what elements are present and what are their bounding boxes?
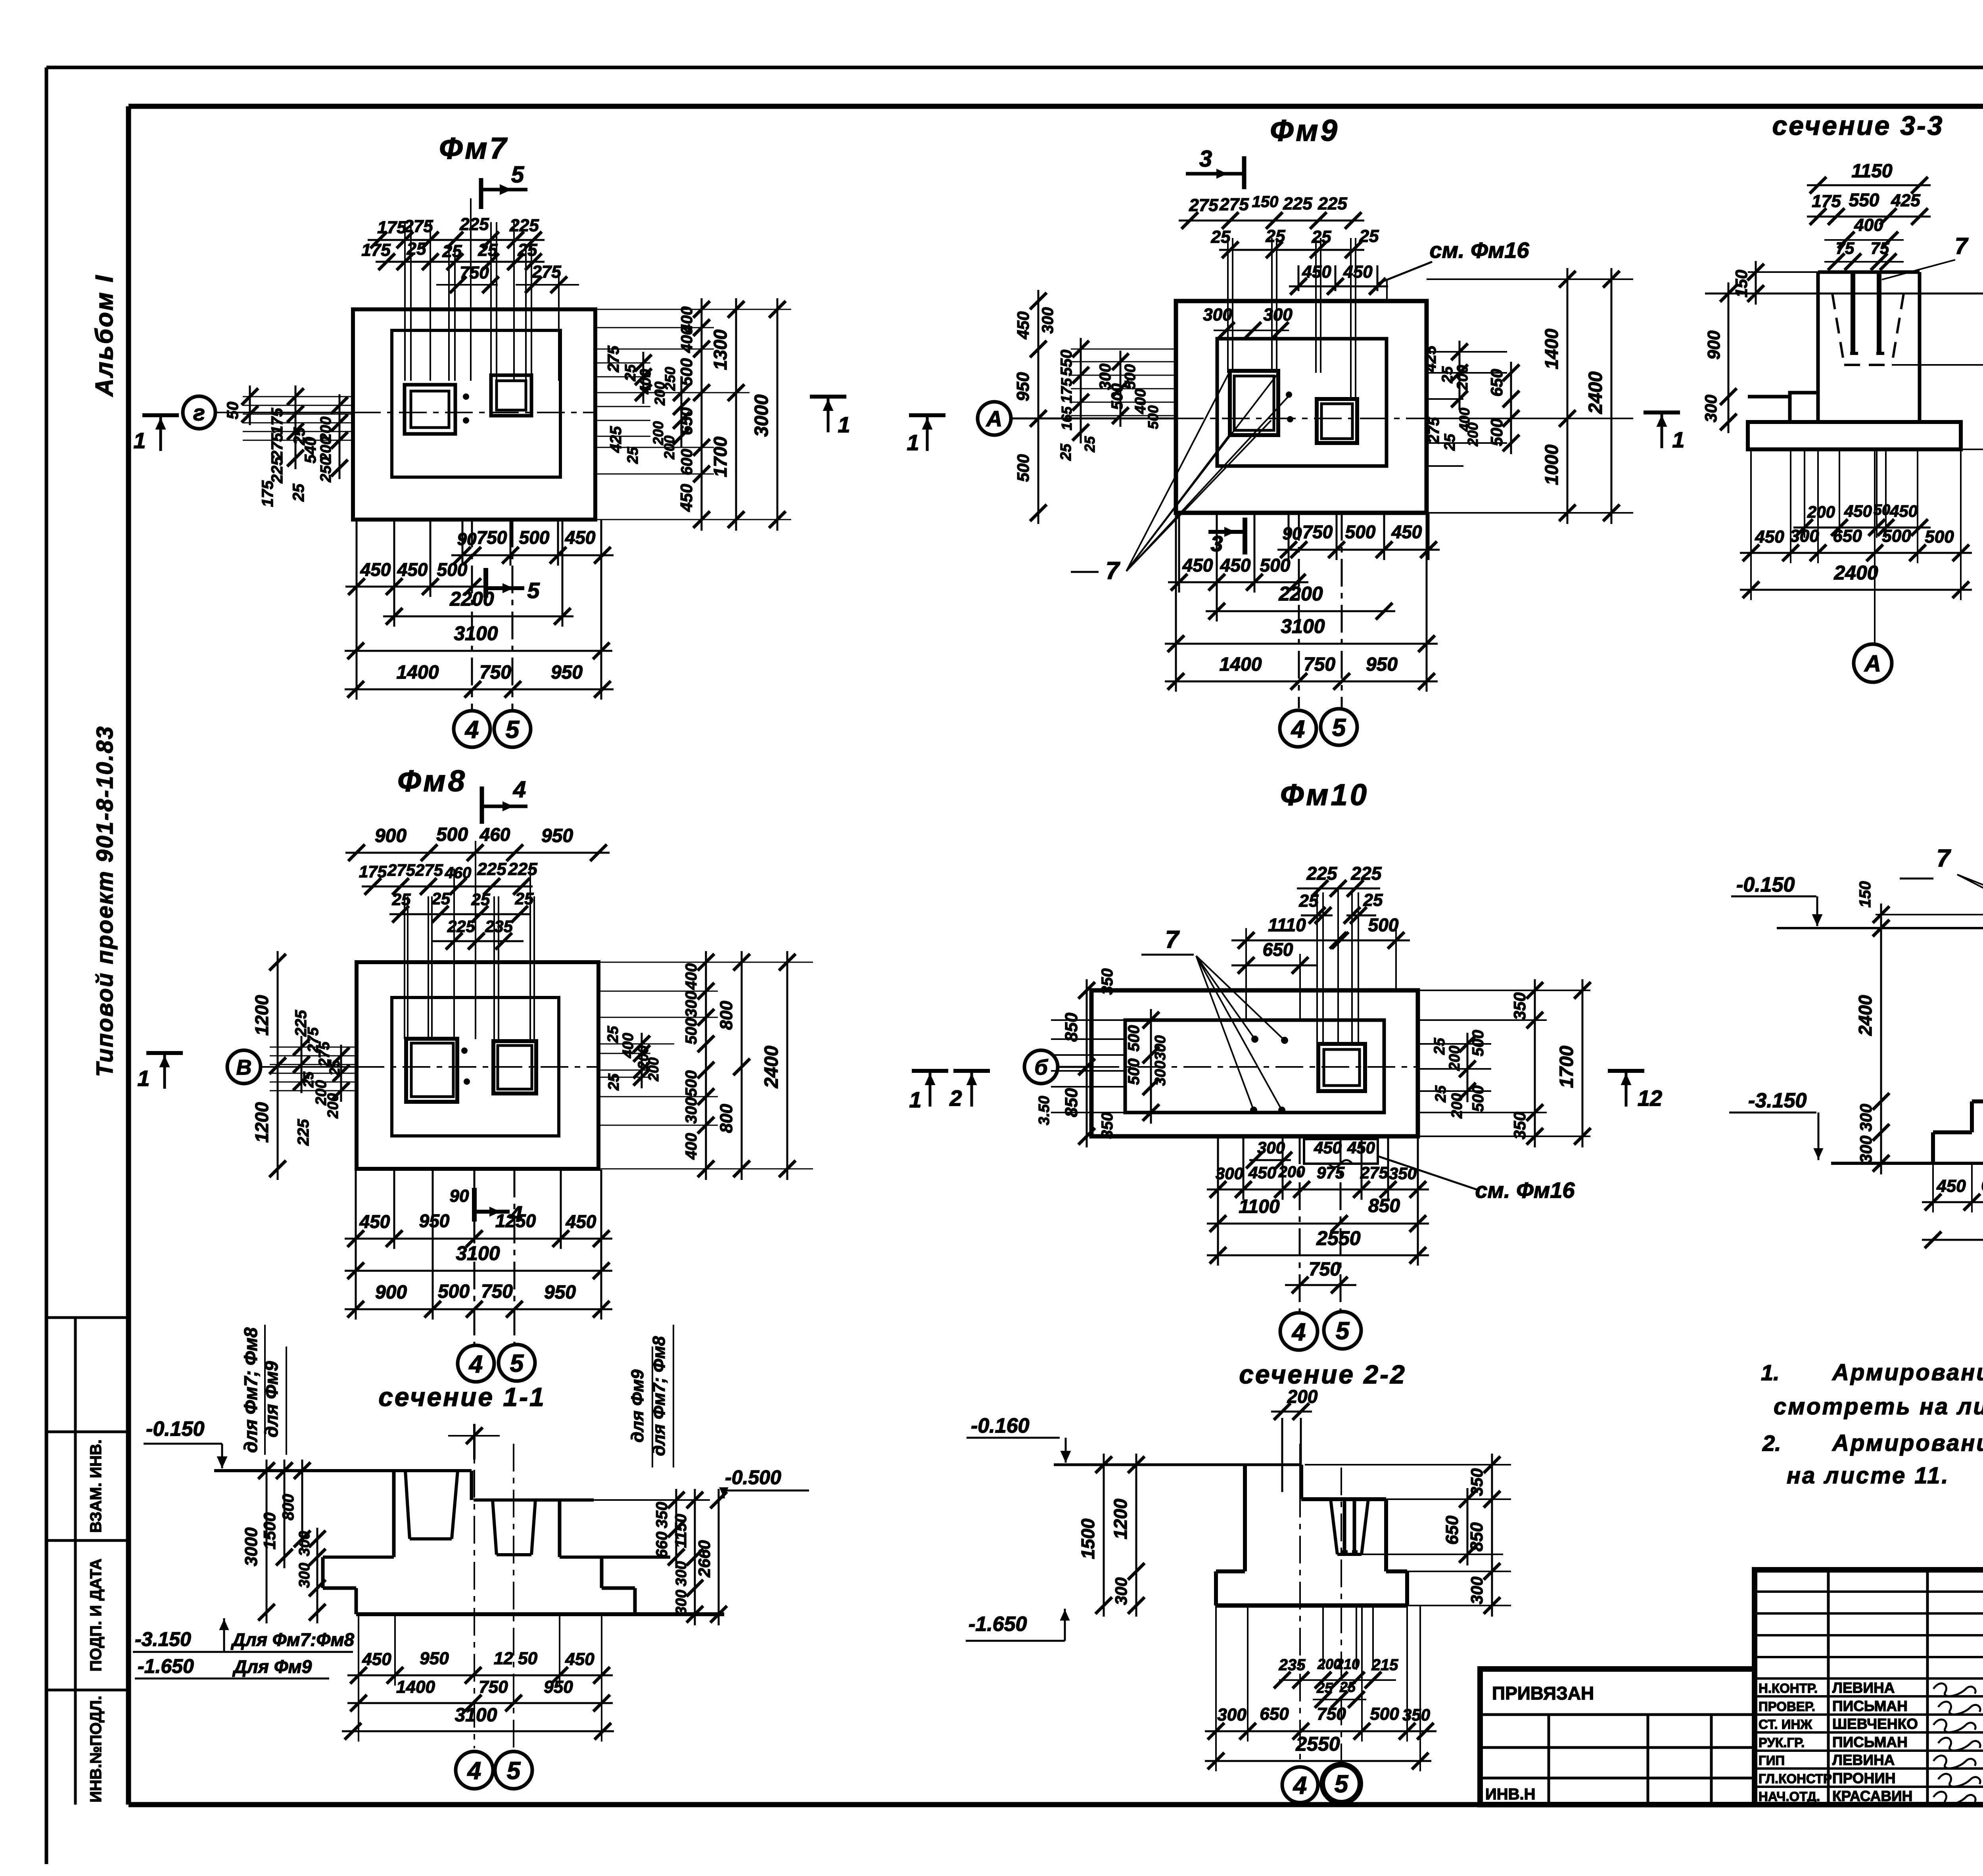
svg-text:300: 300 xyxy=(1039,307,1057,334)
svg-text:ПРОНИН: ПРОНИН xyxy=(1832,1770,1896,1786)
svg-text:250: 250 xyxy=(318,457,334,482)
Fm10 right extension lines xyxy=(1418,990,1590,991)
svg-text:425: 425 xyxy=(607,426,625,453)
section 2-2 rebars xyxy=(1343,1499,1346,1552)
svg-text:225: 225 xyxy=(447,917,476,936)
svg-text:25: 25 xyxy=(622,364,639,382)
Fm9 right extension lines xyxy=(1427,278,1633,280)
svg-text:25: 25 xyxy=(471,890,490,909)
svg-text:950: 950 xyxy=(420,1649,449,1668)
svg-text:б: б xyxy=(1034,1055,1048,1079)
svg-text:350: 350 xyxy=(1099,969,1116,995)
Fm9 left T-marker 1 xyxy=(909,413,945,417)
svg-text:660: 660 xyxy=(653,1532,671,1558)
svg-text:750: 750 xyxy=(1309,1259,1341,1280)
Fm7 cut mark 5 bottom xyxy=(483,568,488,598)
Fm10 left dims xyxy=(1086,979,1088,1147)
svg-text:1150: 1150 xyxy=(672,1514,690,1548)
Fm9 left small dims xyxy=(1071,349,1176,350)
section 1-1 axis dashdot lines xyxy=(474,1424,475,1748)
svg-text:Н.КОНТР.: Н.КОНТР. xyxy=(1759,1681,1818,1696)
svg-text:350: 350 xyxy=(1510,992,1529,1020)
svg-text:800: 800 xyxy=(717,1104,736,1133)
svg-text:425: 425 xyxy=(1422,345,1439,372)
svg-text:500: 500 xyxy=(1014,454,1032,482)
Fm9 right dims 1400-1000 xyxy=(1567,268,1569,524)
Fm9 bottom dims 2200 xyxy=(1206,610,1395,612)
section 3-3 dims 75-75 xyxy=(1824,261,1904,263)
Fm8 center dash-dot lines xyxy=(357,1066,598,1068)
svg-text:7: 7 xyxy=(1937,845,1951,872)
svg-text:1: 1 xyxy=(137,1066,150,1091)
Fm8 axis dots xyxy=(461,1047,468,1054)
section 3-3 level mark -1.650 xyxy=(1961,449,1983,450)
svg-text:25: 25 xyxy=(290,483,307,502)
svg-text:175: 175 xyxy=(1059,378,1075,403)
section 1-1 right level line -0.500 xyxy=(474,1498,594,1502)
svg-text:300: 300 xyxy=(1856,1136,1875,1163)
svg-text:1500: 1500 xyxy=(260,1512,279,1549)
svg-text:750: 750 xyxy=(1302,522,1333,542)
Fm7 axis dots xyxy=(463,393,469,400)
Fm8 left dims xyxy=(270,1047,357,1048)
Fm10 axis b circle xyxy=(1024,1050,1058,1084)
svg-text:150: 150 xyxy=(1856,881,1874,908)
svg-text:275: 275 xyxy=(415,861,443,879)
svg-text:300: 300 xyxy=(683,1097,700,1124)
svg-text:450: 450 xyxy=(1302,262,1331,282)
svg-text:175: 175 xyxy=(359,862,387,881)
svg-text:5: 5 xyxy=(1332,714,1346,741)
svg-text:3.50: 3.50 xyxy=(1036,1096,1053,1125)
svg-text:25: 25 xyxy=(407,239,426,259)
svg-text:50: 50 xyxy=(224,402,242,420)
svg-text:225: 225 xyxy=(1351,863,1382,884)
svg-text:900: 900 xyxy=(1704,330,1724,360)
svg-text:ШЕВЧЕНКО: ШЕВЧЕНКО xyxy=(1832,1716,1918,1732)
Fm8 right chain 800-800 xyxy=(741,951,743,1180)
svg-text:СТ. ИНЖ: СТ. ИНЖ xyxy=(1759,1717,1812,1732)
section 1-1 grid circle 4 xyxy=(456,1751,493,1789)
Fm7 top dim row 3 xyxy=(436,284,498,286)
svg-text:500: 500 xyxy=(436,824,468,845)
svg-text:300: 300 xyxy=(1856,1104,1875,1132)
svg-text:5: 5 xyxy=(506,716,520,743)
section 3-3 right dim 800 xyxy=(1892,364,1983,366)
section 1-1 left pedestal xyxy=(392,1471,396,1557)
svg-text:350: 350 xyxy=(653,1502,671,1529)
svg-text:25: 25 xyxy=(432,889,451,908)
svg-text:2550: 2550 xyxy=(1316,1227,1360,1249)
svg-text:950: 950 xyxy=(419,1210,450,1231)
svg-text:2.: 2. xyxy=(1762,1431,1781,1456)
svg-text:300: 300 xyxy=(1701,395,1720,422)
Fm7 center dash-dot lines xyxy=(353,412,595,413)
svg-text:200: 200 xyxy=(1287,1386,1318,1407)
section 1-1 left steps xyxy=(321,1557,325,1588)
section 1-1 mid ground lines xyxy=(323,1556,394,1559)
section 2-2 below dims 2550 xyxy=(1205,1760,1431,1762)
svg-text:1400: 1400 xyxy=(396,1677,435,1697)
Fm7 left small dims xyxy=(243,396,353,397)
Fm9 axis dots xyxy=(1286,391,1292,398)
svg-text:450: 450 xyxy=(362,1650,391,1669)
svg-text:300: 300 xyxy=(683,991,700,1018)
section 3-3 dim 1150 xyxy=(1807,184,1931,186)
svg-text:175: 175 xyxy=(268,408,286,434)
section 1-1 top level line xyxy=(214,1469,472,1472)
svg-text:850: 850 xyxy=(1368,1195,1400,1216)
svg-text:см. Фм16: см. Фм16 xyxy=(1475,1178,1575,1203)
Fm7 left pocket xyxy=(405,385,455,434)
svg-text:175: 175 xyxy=(259,480,276,507)
svg-text:ГИП: ГИП xyxy=(1759,1753,1785,1768)
Fm8 top dim row 2 xyxy=(389,913,531,915)
svg-text:ГЛ.КОНСТР: ГЛ.КОНСТР xyxy=(1759,1771,1832,1786)
Fm7 grid circle 5 xyxy=(494,711,531,747)
svg-text:25: 25 xyxy=(1312,227,1331,247)
Fm7 bottom dims row2 xyxy=(345,586,484,588)
Fm8 bottom dims row3 xyxy=(345,1308,612,1310)
section 2-2 dim 200 xyxy=(1271,1411,1312,1413)
svg-text:165: 165 xyxy=(1059,406,1075,430)
svg-text:4: 4 xyxy=(468,1350,483,1378)
section 2-2 right dims xyxy=(1467,1488,1469,1565)
svg-text:250: 250 xyxy=(662,367,678,391)
section 3-3 level line xyxy=(1705,293,1983,295)
section 3-3 below dims rowB xyxy=(1740,552,1972,554)
svg-text:300: 300 xyxy=(1467,1577,1486,1604)
svg-text:2660: 2660 xyxy=(695,1540,713,1577)
svg-text:450: 450 xyxy=(565,527,596,548)
svg-text:ПИСЬМАН: ПИСЬМАН xyxy=(1832,1698,1908,1714)
svg-text:225: 225 xyxy=(1283,194,1312,213)
svg-text:3100: 3100 xyxy=(1281,615,1325,637)
svg-text:500: 500 xyxy=(438,1281,470,1302)
Fm10 bottom dims row1 xyxy=(1207,1189,1429,1191)
svg-text:ПИСЬМАН: ПИСЬМАН xyxy=(1832,1734,1908,1750)
svg-text:750: 750 xyxy=(477,527,507,548)
svg-text:ИНВ.№ПОДЛ.: ИНВ.№ПОДЛ. xyxy=(87,1696,105,1802)
svg-text:25: 25 xyxy=(1058,443,1074,461)
Fm9 left pocket xyxy=(1230,371,1278,435)
svg-text:500: 500 xyxy=(1370,1704,1399,1724)
Fm10 top dim 1110 xyxy=(1231,940,1352,942)
svg-text:25: 25 xyxy=(1363,890,1383,910)
svg-text:225: 225 xyxy=(1318,194,1347,213)
svg-text:500: 500 xyxy=(1122,364,1139,389)
section 3-3 glass dashed xyxy=(1832,293,1844,365)
Fm7 bottom dims 3100 xyxy=(345,650,612,652)
Fm7 bottom dims row5 xyxy=(345,689,614,691)
svg-text:1: 1 xyxy=(909,1087,921,1112)
svg-text:300: 300 xyxy=(673,1590,690,1615)
svg-text:90: 90 xyxy=(450,1186,469,1206)
Fm9 axis A circle xyxy=(978,402,1011,435)
Fm10 grid circle 5 xyxy=(1324,1312,1361,1349)
svg-text:ПРИВЯЗАН: ПРИВЯЗАН xyxy=(1492,1683,1594,1703)
svg-text:г: г xyxy=(193,400,205,425)
svg-text:Типовой проект 901-8-10.83: Типовой проект 901-8-10.83 xyxy=(92,725,118,1077)
svg-text:975: 975 xyxy=(1317,1163,1345,1182)
svg-text:7: 7 xyxy=(1165,926,1180,953)
Fm10 left extension lines xyxy=(1051,1019,1125,1021)
svg-text:275: 275 xyxy=(531,262,561,282)
svg-text:400: 400 xyxy=(683,963,700,990)
svg-text:450: 450 xyxy=(1314,1138,1342,1157)
section 3-3 left step xyxy=(1748,395,1790,399)
svg-text:ПРОВЕР.: ПРОВЕР. xyxy=(1759,1699,1815,1714)
section 5-5 below extension lines xyxy=(1932,1163,1934,1212)
svg-text:300: 300 xyxy=(296,1563,313,1588)
svg-text:450: 450 xyxy=(359,1211,390,1232)
section 2-2 grid circle 4 xyxy=(1282,1767,1318,1803)
svg-text:500: 500 xyxy=(1260,555,1291,575)
svg-text:5: 5 xyxy=(510,1350,524,1377)
svg-text:90: 90 xyxy=(1283,524,1302,543)
svg-text:25: 25 xyxy=(1211,227,1231,247)
svg-text:1: 1 xyxy=(133,428,146,453)
svg-text:1: 1 xyxy=(907,430,919,455)
svg-text:сечение 1-1: сечение 1-1 xyxy=(378,1382,546,1412)
svg-text:Для Фм9: Для Фм9 xyxy=(232,1656,312,1677)
Fm8 top dim row 0 xyxy=(345,852,610,854)
section 2-2 glass xyxy=(1331,1499,1337,1554)
Fm9 vertical bars through pockets xyxy=(1227,238,1229,373)
Fm9 right T-marker 1 xyxy=(1644,410,1680,414)
Fm8 bottom dims row1 xyxy=(345,1238,612,1240)
section 5-5 bottom line xyxy=(1831,1162,1983,1165)
section 1-1 below dims row2 xyxy=(347,1702,613,1704)
svg-text:ЛЕВИНА: ЛЕВИНА xyxy=(1832,1752,1895,1768)
svg-text:200: 200 xyxy=(661,435,677,460)
Fm10 top extension lines xyxy=(1245,928,1247,1020)
svg-text:Армирование фундамента Фм10: Армирование фундамента Фм10 смотреть xyxy=(1831,1430,1983,1456)
Fm9 top dim row 1 xyxy=(1179,220,1364,222)
Fm8 left pocket xyxy=(406,1039,457,1102)
Fm8 right pocket xyxy=(493,1041,536,1093)
Fm9 bottom dims row1 xyxy=(1277,549,1440,551)
svg-text:900: 900 xyxy=(375,1282,407,1303)
svg-text:25: 25 xyxy=(625,447,641,464)
svg-text:1500: 1500 xyxy=(1078,1518,1098,1559)
section 1-1 below extension lines xyxy=(358,1614,359,1742)
svg-text:300: 300 xyxy=(673,1561,690,1586)
section 3-3 left dims xyxy=(1728,282,1730,433)
svg-text:-1.650: -1.650 xyxy=(138,1655,194,1677)
svg-text:4: 4 xyxy=(1291,1318,1306,1346)
svg-text:800: 800 xyxy=(717,1001,736,1030)
svg-text:275: 275 xyxy=(1189,196,1218,215)
svg-text:50: 50 xyxy=(1874,502,1890,518)
svg-text:25: 25 xyxy=(1431,1038,1448,1055)
svg-text:450: 450 xyxy=(1936,1176,1966,1196)
Fm7 left T-marker 1 xyxy=(142,413,179,417)
Fm10 plan outer rect xyxy=(1091,990,1418,1136)
svg-text:750: 750 xyxy=(1304,654,1335,675)
svg-text:сечение 3-3: сечение 3-3 xyxy=(1772,111,1944,141)
Fm7 top extension lines xyxy=(404,222,406,381)
svg-text:7: 7 xyxy=(1106,557,1120,585)
svg-text:3000: 3000 xyxy=(751,394,772,437)
svg-text:650: 650 xyxy=(1487,369,1506,397)
svg-text:3100: 3100 xyxy=(455,1705,497,1726)
svg-text:2400: 2400 xyxy=(1585,371,1606,414)
svg-text:500: 500 xyxy=(1345,522,1376,542)
Fm9 grid circle 4 xyxy=(1280,710,1316,747)
svg-text:2400: 2400 xyxy=(761,1045,782,1088)
Fm10 grid circle 4 xyxy=(1280,1313,1318,1350)
svg-text:500: 500 xyxy=(1125,1059,1143,1085)
svg-text:950: 950 xyxy=(1013,372,1033,401)
svg-text:275: 275 xyxy=(1360,1163,1388,1182)
svg-text:750: 750 xyxy=(1317,1704,1346,1724)
svg-text:1: 1 xyxy=(1672,427,1684,452)
Fm7 bottom extension lines xyxy=(356,520,358,700)
svg-text:450: 450 xyxy=(1014,311,1032,340)
svg-text:1400: 1400 xyxy=(1541,328,1562,369)
svg-text:1400: 1400 xyxy=(1220,654,1262,675)
svg-text:1100: 1100 xyxy=(1239,1196,1280,1217)
svg-text:-0.500: -0.500 xyxy=(725,1466,781,1489)
svg-text:2400: 2400 xyxy=(1833,562,1878,584)
section 2-2 below extension lines xyxy=(1215,1606,1217,1771)
svg-text:460: 460 xyxy=(445,864,472,882)
svg-text:400: 400 xyxy=(1854,215,1883,235)
Fm9 grid circle 5 xyxy=(1321,709,1357,745)
svg-text:-1.650: -1.650 xyxy=(968,1613,1027,1636)
svg-text:1700: 1700 xyxy=(1556,1045,1577,1088)
svg-text:500: 500 xyxy=(1925,527,1954,547)
svg-text:500: 500 xyxy=(1125,1025,1143,1052)
Fm7 axis G circle xyxy=(183,396,215,429)
svg-text:850: 850 xyxy=(1062,1013,1081,1042)
Fm7 right T-marker 1 xyxy=(810,395,846,399)
Fm8 right chain small xyxy=(705,951,707,1180)
Fm7 plan outer rect xyxy=(353,309,595,520)
Fm7 cut mark 5 top xyxy=(479,178,483,209)
svg-text:300: 300 xyxy=(1112,1577,1130,1605)
Fm10 top dim 500 xyxy=(1327,940,1410,942)
Fm10 left T-marker 2 xyxy=(953,1069,990,1073)
svg-text:А: А xyxy=(1864,651,1881,677)
Fm9 bottom extension lines xyxy=(1175,513,1177,692)
section 1-1 right pedestal glass xyxy=(493,1500,497,1555)
section 2-2 profile xyxy=(1243,1465,1247,1571)
Fm10 bottom dim 750 xyxy=(1285,1284,1356,1286)
section 1-1 below dims 3100 xyxy=(342,1730,614,1732)
Fm7 top dim row 2 xyxy=(376,261,545,263)
svg-text:25: 25 xyxy=(1299,891,1319,911)
section 5-5 level line xyxy=(1777,927,1983,929)
Fm9 top dim row 2 xyxy=(1219,249,1364,251)
Fm7 top dim row 1 xyxy=(368,239,545,241)
Fm10 bottom dims 2550 xyxy=(1207,1255,1429,1256)
section 5-5 below dims 1700-1300 xyxy=(1922,1239,1983,1241)
svg-text:смотреть на листе 10.: смотреть на листе 10. xyxy=(1774,1394,1983,1419)
svg-text:для Фм9: для Фм9 xyxy=(261,1361,282,1437)
svg-text:950: 950 xyxy=(551,662,583,683)
Fm8 top dim row 1 xyxy=(362,886,533,888)
svg-text:1700: 1700 xyxy=(710,436,731,477)
svg-text:2200: 2200 xyxy=(1278,583,1323,605)
svg-text:1.: 1. xyxy=(1761,1360,1780,1385)
Fm10 pocket xyxy=(1318,1044,1365,1091)
Fm8 left T-marker 1 xyxy=(146,1051,183,1055)
section 1-1 left glass xyxy=(405,1471,410,1539)
svg-text:300: 300 xyxy=(1203,305,1232,324)
svg-text:225: 225 xyxy=(459,215,489,234)
section 1-1 grid circle 5 xyxy=(495,1751,532,1789)
Fm8 bottom extension lines xyxy=(355,1170,357,1320)
svg-text:для Фм7; Фм8: для Фм7; Фм8 xyxy=(240,1327,261,1453)
svg-text:400: 400 xyxy=(620,1033,637,1058)
svg-text:2200: 2200 xyxy=(449,588,494,610)
svg-text:225: 225 xyxy=(295,1119,312,1146)
Fm7 bottom dims row1 xyxy=(451,554,614,556)
svg-text:ПОДП. И ДАТА: ПОДП. И ДАТА xyxy=(87,1559,105,1672)
section 2-2 axis dashdot xyxy=(1299,1444,1301,1766)
Fm7 grid circle 4 xyxy=(454,711,490,747)
svg-text:275: 275 xyxy=(605,345,622,372)
svg-text:1250: 1250 xyxy=(495,1210,536,1231)
Fm10 bracket 450-450 box xyxy=(1304,1139,1378,1164)
svg-text:750: 750 xyxy=(479,662,511,683)
svg-text:на листе 11.: на листе 11. xyxy=(1787,1463,1950,1489)
section 3-3 rebars xyxy=(1851,273,1855,353)
svg-text:25: 25 xyxy=(1442,434,1458,451)
svg-text:для Фм9: для Фм9 xyxy=(628,1369,647,1442)
svg-text:450: 450 xyxy=(397,559,428,580)
svg-text:275: 275 xyxy=(1219,195,1249,214)
outer border top xyxy=(46,66,1983,69)
Fm9 right pocket xyxy=(1317,399,1357,443)
svg-text:450: 450 xyxy=(1182,555,1213,575)
Fm10 bolt dots xyxy=(1251,1036,1258,1043)
svg-text:Армирование фундаментов Фм: Армирование фундаментов Фм7; Фм8; Фм9 xyxy=(1831,1360,1983,1385)
svg-text:200: 200 xyxy=(1465,422,1481,447)
svg-text:5: 5 xyxy=(511,162,524,188)
svg-text:25: 25 xyxy=(1359,226,1379,246)
section 5-5 left dims xyxy=(1880,917,1882,1174)
svg-text:1200: 1200 xyxy=(251,995,272,1036)
svg-text:950: 950 xyxy=(544,1677,573,1697)
svg-text:175: 175 xyxy=(361,240,391,260)
svg-text:450: 450 xyxy=(1844,502,1872,520)
section 3-3 dim 400 xyxy=(1824,239,1904,241)
section 2-2 stub lines xyxy=(1281,1418,1283,1492)
svg-text:Фм10: Фм10 xyxy=(1280,778,1369,812)
svg-text:450: 450 xyxy=(1755,527,1784,547)
svg-text:ИНВ.Н: ИНВ.Н xyxy=(1485,1786,1536,1803)
svg-text:650: 650 xyxy=(1442,1515,1462,1545)
svg-text:400: 400 xyxy=(683,1133,700,1160)
Fm7 right dim 1300-1700 xyxy=(735,298,737,531)
Fm10 right chain 350 xyxy=(1534,979,1536,1147)
svg-text:650: 650 xyxy=(1263,939,1293,960)
Fm7 right dim 3000 xyxy=(777,298,779,531)
Fm8 right dim 2400 xyxy=(786,951,788,1180)
svg-text:450: 450 xyxy=(360,559,391,580)
svg-text:500: 500 xyxy=(1368,915,1399,935)
svg-text:450: 450 xyxy=(566,1211,596,1232)
svg-text:350: 350 xyxy=(1467,1468,1486,1496)
Fm9 plan inner rect xyxy=(1217,339,1387,466)
svg-text:300: 300 xyxy=(1216,1164,1243,1183)
svg-text:НАЧ.ОТД.: НАЧ.ОТД. xyxy=(1759,1789,1820,1804)
Fm8 bottom dims 3100 xyxy=(345,1270,612,1272)
svg-text:450: 450 xyxy=(1391,522,1422,542)
